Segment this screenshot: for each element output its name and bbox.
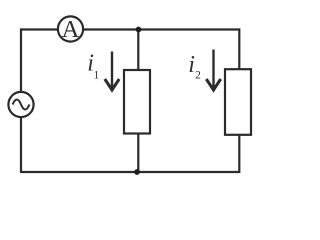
impedance Z1 box xyxy=(124,70,150,134)
wire: bottom conductor xyxy=(21,171,239,173)
svg-text:1: 1 xyxy=(94,69,100,81)
svg-text:i: i xyxy=(188,52,195,78)
wire: left conductor xyxy=(20,28,22,173)
AC source V1 sine wave xyxy=(13,100,30,110)
current arrow i1 xyxy=(105,52,119,91)
wire: middle branch vertical xyxy=(137,30,139,173)
current arrow i2 xyxy=(206,50,220,91)
ammeter A1 circle xyxy=(58,16,83,41)
node: bottom junction dot xyxy=(134,169,140,175)
AC source V1 circle xyxy=(8,92,33,117)
node: top junction dot xyxy=(136,27,142,33)
svg-text:A: A xyxy=(62,16,80,43)
wire: right conductor xyxy=(238,28,240,173)
svg-text:2: 2 xyxy=(195,70,201,82)
wire: top conductor from left corner to right corner xyxy=(21,28,239,30)
impedance Z2 box xyxy=(225,69,251,135)
